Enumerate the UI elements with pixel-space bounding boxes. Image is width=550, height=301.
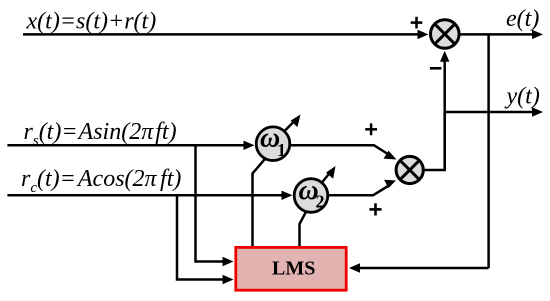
summing junction 1 bbox=[431, 20, 460, 49]
arrow adjust w2 bbox=[322, 166, 336, 183]
wire x(t) input bbox=[23, 30, 429, 39]
weight w1 circle bbox=[256, 123, 290, 161]
svg-text:2: 2 bbox=[316, 191, 325, 211]
wire minus feedback into summer 1 bbox=[440, 51, 449, 170]
wire w1 to LMS bbox=[253, 159, 266, 246]
minus sign at summer 1 bbox=[430, 67, 442, 70]
arrow adjust w1 bbox=[284, 115, 301, 132]
wire e(t) feedback vertical bbox=[487, 34, 490, 268]
plus sign at summer 1 bbox=[411, 17, 423, 29]
wire y(t) branch bbox=[445, 107, 543, 116]
plus sign w1 path bbox=[365, 123, 377, 135]
LMS block bbox=[236, 247, 346, 290]
plus sign w2 path bbox=[369, 203, 381, 215]
svg-text:1: 1 bbox=[277, 140, 286, 160]
wire rs input bbox=[7, 141, 254, 150]
wire rc input bbox=[7, 191, 292, 200]
summing junction 2 bbox=[396, 156, 423, 183]
wire e(t) feedback horizontal into LMS bbox=[349, 263, 489, 272]
wire e(t) output bbox=[460, 30, 543, 39]
wire w1 output to summer 2 bbox=[290, 145, 397, 159]
svg-text:y(t): y(t) bbox=[505, 84, 540, 110]
wire rs tap to LMS bbox=[196, 145, 234, 266]
svg-text:x(t)=s(t)+r(t): x(t)=s(t)+r(t) bbox=[26, 9, 157, 35]
weight w2 circle bbox=[294, 175, 328, 212]
wire w2 to LMS bbox=[300, 212, 307, 246]
svg-text:e(t): e(t) bbox=[506, 6, 539, 32]
wire w2 output to summer 2 bbox=[328, 180, 397, 196]
wire rc tap to LMS bbox=[177, 195, 234, 284]
svg-text:LMS: LMS bbox=[272, 258, 315, 280]
wire summer 2 output bbox=[423, 112, 444, 170]
